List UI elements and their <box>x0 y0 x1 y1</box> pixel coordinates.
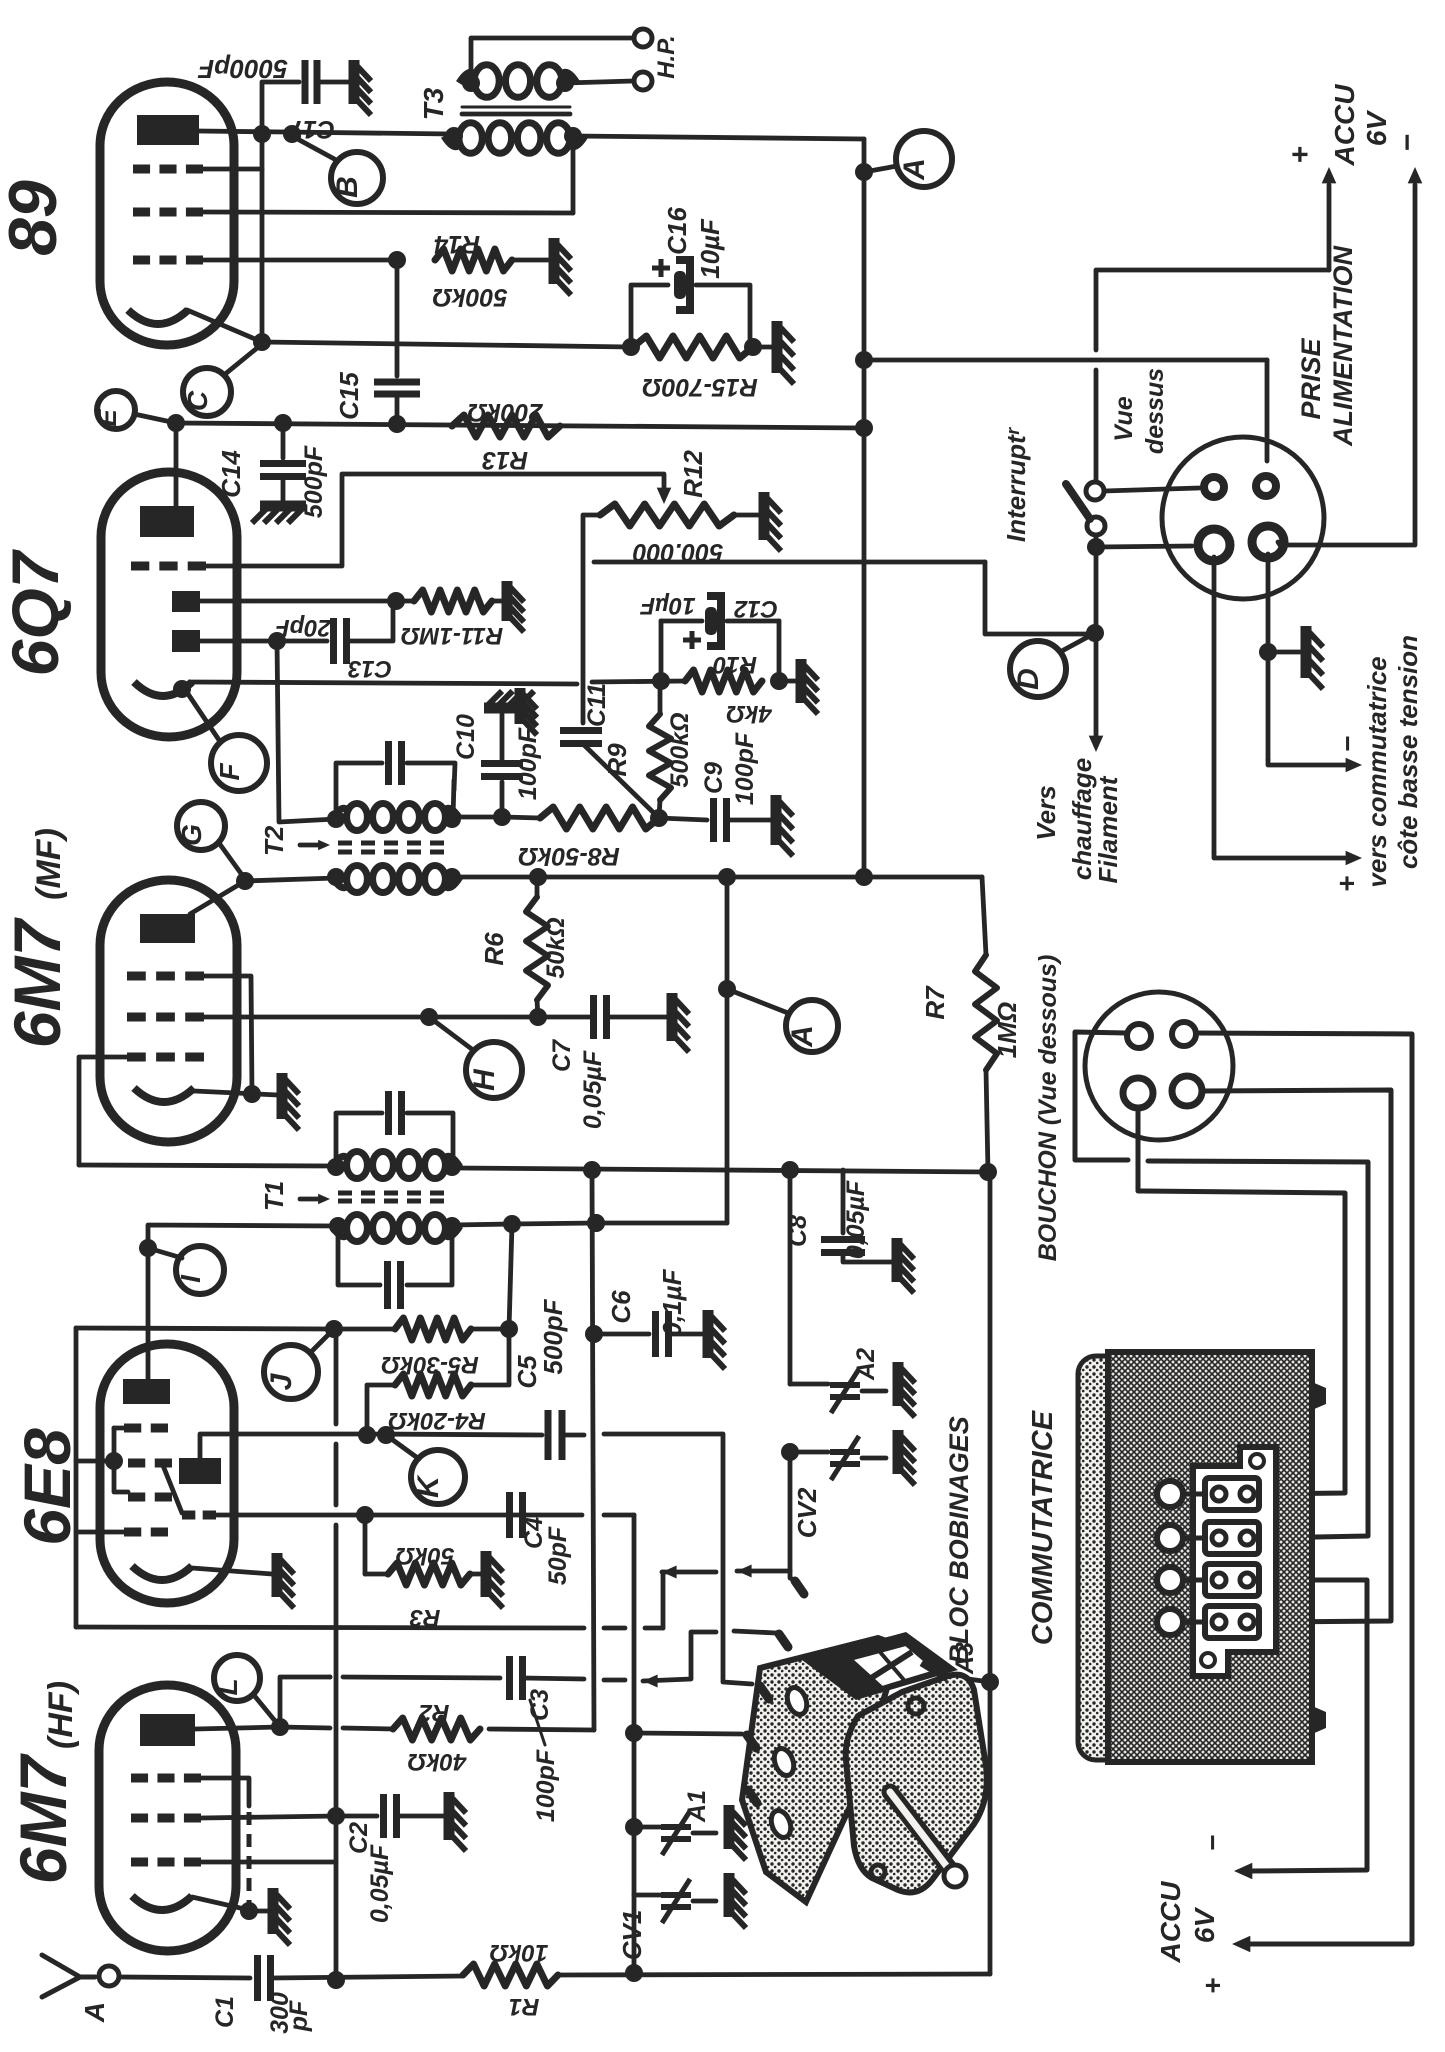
ground (C2) <box>444 1792 455 1840</box>
tube 6M7(MF) anode plate <box>140 914 195 943</box>
resistor R7 1M vertical <box>975 955 997 1070</box>
wire: filament to ground <box>194 1091 278 1095</box>
capacitor C16 electrolytic <box>674 271 686 299</box>
tube 6M7(MF) envelope <box>100 880 237 1142</box>
wire: resistor R3 branch <box>363 1515 368 1574</box>
dynamotor COMMUTATRICE body <box>1078 1356 1130 1760</box>
bloc shaft <box>890 1792 952 1872</box>
svg-text:BLOC BOBINAGES: BLOC BOBINAGES <box>944 1416 974 1664</box>
bloc pivot pin <box>922 1662 948 1678</box>
ground (R11) <box>502 581 513 621</box>
capacitor C17 5000pF <box>302 60 309 104</box>
bloc front plate <box>846 1675 987 1893</box>
svg-text:T1: T1 <box>259 1181 289 1211</box>
tube 6E8 grid row 5 <box>124 1528 141 1537</box>
capacitor C14 <box>281 423 286 458</box>
wire: g2 row to C2 node <box>201 1816 336 1818</box>
wire: E leader <box>134 414 176 423</box>
callout circle D <box>1010 641 1066 697</box>
svg-text:Filament: Filament <box>1093 775 1123 883</box>
svg-text:+: + <box>1331 876 1362 892</box>
commutatrice terminal plate <box>1193 1447 1276 1676</box>
terminal row 3 <box>1205 1564 1259 1596</box>
wire: H leader <box>429 1017 473 1050</box>
wire: 6E8 plate to T1 <box>148 1225 338 1380</box>
svg-text:H.P.: H.P. <box>653 35 680 79</box>
svg-text:A: A <box>786 1025 819 1048</box>
svg-text:pF: pF <box>285 2000 313 2032</box>
ground (R14) <box>549 238 560 284</box>
svg-text:L: L <box>212 1678 243 1695</box>
wire: R15 to ground <box>753 345 775 350</box>
callout circle L <box>214 1655 260 1701</box>
tube 6M7(HF) grid row2 <box>131 1814 148 1823</box>
wire: 6E8 triode anode to K line <box>200 1434 366 1458</box>
svg-text:ACCU: ACCU <box>1329 84 1360 167</box>
ground (A1) <box>724 1805 735 1849</box>
wire: C3 staircase to bloc pin 2 <box>643 1675 658 1688</box>
svg-text:R15-700Ω: R15-700Ω <box>642 373 757 401</box>
svg-text:Interruptʳ: Interruptʳ <box>1001 426 1031 542</box>
tube 6M7(HF) grid row3 <box>131 1858 148 1867</box>
transformer T3 primary <box>459 123 482 153</box>
wire: R12 left to C11 <box>583 515 600 723</box>
ground (6M7MF cathode) <box>277 1073 288 1119</box>
wire: T2 secondary top line <box>454 815 502 820</box>
svg-text:R12: R12 <box>678 450 708 498</box>
svg-text:0,05µF: 0,05µF <box>842 1180 870 1259</box>
bouchon pin bottom-left <box>1123 1078 1153 1108</box>
HP terminal top <box>634 29 652 47</box>
resistor R1 10k <box>463 1964 558 1986</box>
transformer T1 primary (top) <box>347 1151 368 1178</box>
transformer T2 secondary (bottom) <box>347 865 368 892</box>
wire: R4 right up to R5 right <box>471 1329 509 1385</box>
svg-text:R13: R13 <box>482 446 528 474</box>
wire: vertical x336 (J net to C2 node) <box>334 1329 339 1424</box>
callout circle J <box>264 1345 318 1399</box>
svg-text:10µF: 10µF <box>639 592 696 619</box>
wire: HT line to interrupteur region <box>864 358 1267 363</box>
tube 6M7(MF) filament <box>134 1088 194 1102</box>
wire: C16 right to R15 right <box>696 285 750 347</box>
svg-text:CV1: CV1 <box>617 1910 647 1961</box>
wire: bloc wiper column x990 <box>988 1172 993 1974</box>
tube 89 envelope <box>100 82 234 345</box>
wire: grid5 stub <box>76 1530 124 1535</box>
wire: y1170 line (R7 bottom row) <box>455 1168 988 1172</box>
svg-text:R3: R3 <box>409 1604 440 1631</box>
antenna symbol <box>42 1955 80 1997</box>
svg-text:100pF: 100pF <box>532 1749 560 1822</box>
T1 core dashed <box>338 1191 452 1196</box>
svg-text:6M7: 6M7 <box>6 1753 80 1885</box>
wire: CV2/A2 column from y1170 <box>788 1170 793 1384</box>
wire: R2 line right end joins Va <box>489 1729 594 1730</box>
tube 6M7(MF) grid row 1 <box>127 972 146 981</box>
ground (C6) <box>703 1310 714 1358</box>
trimmer A2 <box>790 1382 828 1387</box>
ground (C14) <box>260 501 306 512</box>
capacitor C4 50pF <box>506 1492 513 1538</box>
capacitor C1 300pF <box>254 1955 261 2001</box>
wire: bus2 vertical from T2 line <box>725 877 730 1223</box>
tube 6Q7 anode plate <box>140 506 194 537</box>
wire: to vers commutatrice - arrow <box>1268 760 1345 765</box>
T1 pointer arrow <box>300 1197 324 1202</box>
wire: R13 bus junction y562 line <box>594 560 985 565</box>
svg-text:R10: R10 <box>712 651 757 678</box>
ground (6M7HF filament) <box>268 1888 279 1934</box>
svg-text:ALIMENTATION: ALIMENTATION <box>1328 246 1358 447</box>
svg-text:20pF: 20pF <box>274 614 332 641</box>
wire: C13 right up to R11 line <box>346 601 393 641</box>
wire: g3 row to x336 <box>201 1860 336 1865</box>
callout circle E <box>97 391 135 429</box>
ground (C7) <box>667 993 678 1041</box>
wire: prise BR pin to - <box>1278 542 1280 545</box>
svg-text:R11-1MΩ: R11-1MΩ <box>401 622 504 649</box>
svg-text:BOUCHON (Vue dessous): BOUCHON (Vue dessous) <box>1034 955 1062 1262</box>
svg-text:E: E <box>92 409 122 427</box>
wire: 6E8 filament to ground <box>192 1568 272 1574</box>
wire: to vers commutatrice + arrow <box>1214 852 1345 858</box>
wire: main HT bus vertical <box>862 139 867 877</box>
ground (C8) <box>892 1238 903 1282</box>
svg-text:50kΩ: 50kΩ <box>542 917 570 978</box>
callout circle A (top) <box>896 131 952 187</box>
capacitor C5 500pF <box>545 1410 552 1460</box>
wire: C17 to ground <box>317 80 350 85</box>
wire: arrowed line y1572 to CV2 column <box>662 1566 677 1579</box>
wire: R5 right to T1 line <box>471 1224 512 1329</box>
svg-text:vers commutatrice: vers commutatrice <box>1362 656 1392 887</box>
svg-text:5000pF: 5000pF <box>197 54 288 84</box>
wire: C1 to R1 <box>271 1976 463 1978</box>
wire: C12 loop sides <box>659 621 664 681</box>
resistor R8 50k <box>540 807 659 829</box>
wire: R14 to ground <box>512 258 548 263</box>
tube 6E8 triode anode <box>179 1458 221 1484</box>
resistor R14 500k <box>435 249 512 271</box>
wire: L leader <box>253 1694 280 1727</box>
wire: plate node up to C17 cap <box>262 82 299 134</box>
tube 89 grid row 3 <box>133 256 150 265</box>
svg-text:500kΩ: 500kΩ <box>666 712 694 787</box>
terminal row 1 <box>1205 1478 1259 1510</box>
wire: T3 secondary to HP terminals <box>471 38 633 83</box>
svg-text:côte basse tension: côte basse tension <box>1393 635 1423 869</box>
svg-text:A2: A2 <box>852 1348 880 1381</box>
capacitor C9 100pF <box>659 818 707 820</box>
capacitor C15 <box>374 379 420 386</box>
wire: bouchon BL pin to commutatrice row1 <box>1138 1108 1345 1494</box>
capacitor C12 electrolytic <box>661 619 702 624</box>
resistor R15 700ohm <box>622 338 640 356</box>
wire: V_b to bloc pin4 <box>634 1733 742 1734</box>
svg-text:G: G <box>176 824 207 846</box>
wire: G leader <box>219 843 245 879</box>
ground (CV1) <box>724 1873 735 1917</box>
wire: y562 drop to D node <box>985 562 1092 634</box>
svg-text:−: − <box>1197 1835 1228 1851</box>
wire: bouchon TL pin loop to commutatrice row2 <box>1075 1032 1128 1160</box>
wire: T1 top line left to 6M7MF g3 <box>79 1165 336 1166</box>
resistor R11 1M <box>414 590 492 612</box>
bloc left face holes <box>784 1685 810 1717</box>
svg-text:C16: C16 <box>662 207 692 255</box>
wire: 6Q7 cathode line <box>190 682 577 684</box>
tube 6Q7 diode plates <box>172 591 200 612</box>
wire: K line right of bus to step-down <box>604 1432 722 1437</box>
wire: bus Va vertical x594 <box>592 1170 594 1730</box>
svg-text:ACCU: ACCU <box>1155 1881 1186 1964</box>
ground (C10) <box>484 703 524 714</box>
wire: K line y1435 <box>366 1434 542 1435</box>
tube 89 filament <box>128 310 188 324</box>
wire: g1 to cathode row <box>204 976 252 1094</box>
svg-text:100pF: 100pF <box>514 727 542 800</box>
variable capacitor CV2 <box>781 1443 799 1461</box>
prise pin bottom-right <box>1252 526 1284 558</box>
wire: step down x722 to bloc pin 3 <box>723 1434 752 1684</box>
svg-text:C7: C7 <box>548 1039 576 1072</box>
svg-text:50pF: 50pF <box>544 1526 572 1585</box>
ground (6E8 filament) <box>272 1553 283 1597</box>
svg-text:A1: A1 <box>683 1790 711 1823</box>
wire: R3 to ground <box>470 1572 482 1577</box>
svg-text:R5-30kΩ: R5-30kΩ <box>381 1351 479 1378</box>
ground (R10) <box>796 659 807 703</box>
svg-text:0,1µF: 0,1µF <box>657 1268 687 1336</box>
svg-text:0,05µF: 0,05µF <box>579 1050 607 1129</box>
svg-text:6V: 6V <box>1189 1907 1220 1944</box>
svg-text:C6: C6 <box>606 1290 636 1324</box>
resistor R12 potentiometer 500.000 <box>600 504 734 526</box>
svg-text:6E8: 6E8 <box>10 1428 84 1546</box>
svg-text:(HF): (HF) <box>42 1681 80 1749</box>
svg-text:PRISE: PRISE <box>1296 337 1326 419</box>
svg-text:J: J <box>265 1372 298 1390</box>
svg-text:C15: C15 <box>334 372 364 420</box>
svg-text:0,05µF: 0,05µF <box>366 1844 394 1923</box>
wire: 89 filament to node C <box>187 310 262 342</box>
wire: g2 row to C7 <box>204 1015 591 1020</box>
tube 89 grid row 2 (screen) <box>133 208 150 217</box>
tube 6M7(HF) envelope <box>99 1685 236 1951</box>
ground (cathode 6Q7) <box>515 688 526 724</box>
wire: antenna to C1 <box>119 1977 250 1978</box>
tube 6E8 oscillator grid <box>182 1511 195 1520</box>
svg-text:4kΩ: 4kΩ <box>726 700 773 727</box>
wire: cathode 89 line to R15 <box>262 342 631 347</box>
svg-text:C1: C1 <box>211 1996 239 2028</box>
wire: R4 left down to K line <box>367 1385 395 1435</box>
svg-text:R1: R1 <box>509 1993 540 2020</box>
arrow vers chauffage <box>1089 736 1104 752</box>
bouchon pin bottom-right <box>1172 1076 1202 1106</box>
svg-text:CV2: CV2 <box>792 1487 822 1538</box>
svg-text:R2: R2 <box>418 1699 449 1726</box>
wire: 6E8 grid feed from J net <box>76 1459 114 1464</box>
T2 core dashed <box>338 841 452 846</box>
wire: C leader <box>224 344 262 375</box>
svg-text:R6: R6 <box>479 932 509 966</box>
capacitor C11 <box>560 727 602 734</box>
callout circle A (mid) <box>786 1000 838 1052</box>
callout circle I <box>176 1246 224 1294</box>
capacitor C10 branch <box>500 782 505 817</box>
wire: osc grid row out <box>216 1513 360 1518</box>
wire: A callout leader <box>864 166 897 172</box>
svg-text:A: A <box>898 158 931 181</box>
wire: 6M7MF plate diagonal to T2 <box>190 881 245 914</box>
svg-text:R14: R14 <box>434 230 480 258</box>
ground (R3) <box>481 1551 492 1597</box>
svg-text:R9: R9 <box>602 743 632 777</box>
plug BOUCHON circle <box>1085 992 1233 1140</box>
wire: - ACCU top arrow and vertical <box>1408 167 1423 183</box>
resistor R5 30k <box>395 1318 471 1340</box>
transformer T3 secondary <box>474 65 499 98</box>
wire: y1627 step up to arrow line <box>661 1572 666 1628</box>
wire: I leader <box>148 1248 182 1258</box>
tube 6E8 hexode anode <box>123 1379 170 1404</box>
wire: R12 right to ground <box>734 513 760 518</box>
wire: 6E8 grids tie <box>114 1428 128 1492</box>
svg-text:Vers: Vers <box>1031 785 1061 840</box>
terminal row 4 <box>1205 1606 1259 1638</box>
svg-text:R7: R7 <box>920 985 950 1020</box>
ground (R15) <box>772 321 783 373</box>
tube 6M7(HF) anode plate <box>140 1714 195 1746</box>
wire: J net line y1329 <box>76 1328 334 1329</box>
wire: L node up to C3 line <box>280 1677 330 1727</box>
wire: interrupteur vertical to D and chauffage <box>1094 547 1099 625</box>
svg-text:C12: C12 <box>733 595 778 622</box>
commutatrice knobs <box>1312 1382 1326 1410</box>
resistor R13 200k <box>452 415 560 437</box>
wire: D leader <box>1060 633 1095 652</box>
resistor R2 40k <box>393 1718 480 1740</box>
wire: J net left vertical <box>74 1328 79 1627</box>
T2 pointer arrow <box>300 843 324 848</box>
capacitor C7 <box>590 995 597 1039</box>
interrupteur switch <box>1086 482 1104 500</box>
capacitor C8 0,05uF <box>841 1170 846 1233</box>
wire: 6Q7 grid to R12 wiper <box>206 474 664 566</box>
svg-text:500kΩ: 500kΩ <box>432 283 507 311</box>
wire: g3 left exit down to T1 <box>79 1057 127 1165</box>
svg-text:dessus: dessus <box>1141 368 1169 454</box>
T1 primary tank cap <box>336 1113 382 1167</box>
svg-text:500pF: 500pF <box>538 1298 568 1374</box>
wire: C4 line y1515 <box>360 1513 582 1518</box>
wire: filament to ground <box>192 1897 249 1910</box>
svg-text:H: H <box>468 1068 501 1091</box>
wire: 89 g3 node <box>388 251 406 269</box>
T3 core <box>462 106 570 109</box>
tube 6E8 envelope <box>100 1344 234 1603</box>
wire: HT to R7 top <box>982 877 986 955</box>
ground (commutatrice side) <box>1268 650 1300 655</box>
wire: 6M7HF plate line to L node <box>195 1727 280 1729</box>
svg-text:500pF: 500pF <box>300 445 328 518</box>
label 100pF (C3) with leader <box>530 1700 545 1745</box>
wire: g3 node down to C15 <box>395 260 400 376</box>
wire: R10 right to ground <box>779 679 797 684</box>
svg-text:6Q7: 6Q7 <box>0 548 72 676</box>
svg-text:1MΩ: 1MΩ <box>992 1002 1022 1058</box>
tube 89 grid row 1 <box>133 165 150 174</box>
ground (R12) <box>759 492 770 540</box>
wire: prise BL pin down / ground branch <box>1212 557 1217 852</box>
svg-text:I: I <box>175 1274 206 1283</box>
capacitor C13 20pF <box>330 618 337 664</box>
wire: HT to prise pin (top right) <box>1265 360 1270 461</box>
svg-text:(MF): (MF) <box>30 828 68 900</box>
wire: J net bottom long line y1627 <box>76 1627 584 1628</box>
antenna terminal <box>99 1966 119 1986</box>
bloc pin stubs <box>795 1581 804 1594</box>
resistor R10 4k <box>685 670 762 692</box>
wire: T3 primary right to bus and screen drop <box>573 136 864 139</box>
wire: C11 to R8/R9 node <box>583 744 659 818</box>
resistor R3 50k <box>388 1563 470 1585</box>
svg-text:6V: 6V <box>1361 110 1392 147</box>
bouchon pin top-left <box>1127 1024 1151 1048</box>
wire: R10 row <box>592 681 685 682</box>
resistor R6 50k vertical <box>526 897 548 1000</box>
svg-text:B: B <box>331 176 364 198</box>
tube 6M7(HF) grid row1 <box>131 1774 148 1783</box>
wire: commutatrice row3 to - ACCU bottom <box>1250 1580 1367 1871</box>
tube 6E8 grid rows <box>124 1424 141 1433</box>
wire: switch to prise pins <box>1104 488 1199 491</box>
svg-text:A: A <box>79 2002 110 2023</box>
svg-text:40kΩ: 40kΩ <box>407 1748 467 1775</box>
wire: T2 secondary line to bus <box>452 875 982 880</box>
bouchon pin top-right <box>1172 1022 1196 1046</box>
bloc plate screws <box>908 1698 924 1714</box>
svg-text:C: C <box>182 390 213 411</box>
wire: R1 right along bottom <box>558 1974 990 1975</box>
svg-text:−: − <box>1391 134 1424 152</box>
wire: V_b lower section <box>632 1733 637 1973</box>
terminal plate screws <box>1250 1454 1264 1468</box>
wire: B callout leader <box>292 136 338 161</box>
callout circle C <box>183 368 231 416</box>
wire: + ACCU top arrow <box>1327 185 1332 270</box>
wire: R11 to ground <box>492 599 503 604</box>
svg-text:K: K <box>412 1474 445 1498</box>
wire: 89 screen vertical node <box>260 134 265 342</box>
tube 6Q7 envelope <box>101 472 237 737</box>
svg-text:D: D <box>1012 668 1045 690</box>
wire: C3 line y1677 <box>328 1675 333 1680</box>
tube 89 anode plate <box>137 115 199 145</box>
svg-text:T3: T3 <box>418 87 449 120</box>
svg-text:Vue: Vue <box>1110 396 1138 441</box>
wire: screen drop from T3 right to 89 grid2 <box>571 136 576 213</box>
wire: 6Q7 plate to node E <box>174 424 179 506</box>
tube 6M7(MF) grid row 2 <box>127 1013 146 1022</box>
wire: bus2 corner to C6 bus <box>596 1221 727 1226</box>
wire: C4 line down V_b <box>632 1515 637 1733</box>
T2 primary tank cap <box>336 763 382 819</box>
callout circle H <box>466 1042 522 1098</box>
callout circle F <box>211 735 267 791</box>
